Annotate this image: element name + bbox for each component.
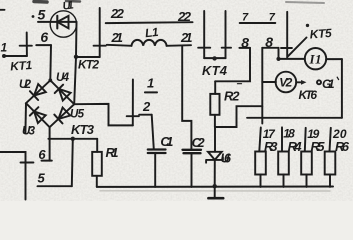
svg-text:7: 7 (242, 12, 249, 24)
svg-text:U1: U1 (62, 0, 75, 13)
diode U5 (54, 108, 70, 124)
junction U1/KT2 (74, 55, 78, 59)
ammeter I1 (279, 48, 342, 69)
svg-text:21: 21 (180, 30, 193, 45)
svg-text:KT1: KT1 (10, 58, 33, 74)
wire R2 top to 8 left (215, 48, 250, 81)
contact KT5 (281, 12, 309, 58)
terminal 8 left line (239, 47, 250, 49)
voltmeter V2 (276, 72, 297, 93)
inductor L1 line 22 (106, 21, 193, 24)
wire 2 to C1 (152, 115, 154, 150)
capacitor C2 (183, 150, 202, 187)
resistor R1 (92, 139, 102, 187)
resistor R4 (278, 127, 289, 186)
contact node 1 mid (127, 80, 139, 126)
junction bridge top (48, 78, 52, 82)
wire 5 riser (72, 139, 73, 186)
svg-text:R6: R6 (335, 139, 350, 154)
svg-text:U2: U2 (19, 79, 32, 91)
svg-text:KT2: KT2 (78, 58, 99, 72)
svg-text:U6: U6 (221, 152, 233, 166)
svg-text:21: 21 (111, 30, 124, 45)
svg-text:C1: C1 (160, 134, 173, 149)
svg-text:R2: R2 (224, 89, 240, 104)
connector KT6 arrow (296, 77, 338, 85)
svg-text:R4: R4 (288, 139, 303, 154)
terminal 7 line (240, 22, 276, 24)
wire bridge right vertex up (74, 57, 76, 104)
svg-text:KT6: KT6 (299, 88, 318, 102)
svg-text:U4: U4 (56, 72, 70, 84)
svg-text:5: 5 (38, 171, 46, 186)
wire R2 bottom jog to riser (215, 106, 262, 127)
junction dot (276, 57, 280, 61)
resistor R3 (255, 128, 266, 187)
svg-text:KT3: KT3 (71, 122, 95, 137)
ground (208, 186, 223, 198)
riser 8 right down (261, 48, 263, 124)
svg-text:7: 7 (269, 12, 276, 24)
top-right edge smudge (286, 2, 324, 3)
bus shadow (100, 190, 330, 192)
terminal 2 bar (139, 114, 152, 116)
svg-text:6: 6 (38, 147, 46, 162)
wire U1 down (75, 22, 78, 57)
svg-text:U3: U3 (22, 126, 36, 138)
label 5 top (32, 15, 35, 18)
wire V2 branch (262, 81, 276, 83)
svg-text:KT4: KT4 (202, 63, 228, 78)
bottom bus (97, 186, 333, 188)
contact KT4 (198, 11, 231, 61)
svg-text:2: 2 (142, 99, 151, 114)
contact KT1 (20, 33, 32, 57)
node 5 bottom terminal line (38, 185, 72, 187)
svg-text:22: 22 (177, 9, 192, 24)
svg-text:U5: U5 (70, 109, 85, 121)
bridge diamond (26, 80, 74, 127)
svg-text:1: 1 (1, 41, 8, 55)
top-left edge smudge (34, 0, 47, 4)
resistor R2 (210, 81, 219, 127)
wire KT2 bottom (76, 56, 100, 58)
svg-text:L1: L1 (144, 25, 159, 40)
svg-text:6: 6 (40, 29, 48, 45)
svg-text:I1: I1 (309, 52, 322, 67)
diode U3 (30, 107, 46, 123)
left edge tick top (0, 9, 5, 11)
wire 21 to C2 (182, 46, 191, 150)
svg-text:1: 1 (147, 75, 154, 90)
svg-text:R1: R1 (106, 145, 119, 160)
resistor R5 (301, 128, 312, 187)
svg-text:R5: R5 (311, 139, 326, 154)
wire to bridge top (49, 45, 52, 80)
node 6 top terminal line (36, 44, 51, 46)
node 6 bottom terminal line (42, 160, 52, 162)
left edge wire (0, 152, 33, 200)
node 5 top wire (38, 21, 77, 23)
svg-text:8: 8 (241, 35, 249, 51)
svg-text:C2: C2 (192, 135, 206, 150)
svg-text:KT5: KT5 (309, 26, 332, 42)
bridge left vertex stub (24, 103, 27, 133)
tick under wire (238, 83, 242, 85)
contact KT2 (94, 8, 106, 57)
svg-text:R3: R3 (264, 139, 278, 154)
wire KT3 (48, 138, 97, 140)
diode U1 (50, 11, 76, 37)
wire bridge bottom down (49, 127, 51, 160)
terminal 1 bar (145, 91, 157, 93)
diode U2 (30, 84, 46, 100)
capacitor C1 (148, 150, 166, 187)
wire bridge right to contact (74, 104, 133, 126)
diode U4 (55, 85, 71, 101)
node 1 (left wire) (2, 54, 27, 58)
svg-text:V2: V2 (279, 76, 292, 90)
wire ammeter contact line (247, 59, 342, 118)
junction KT3 (71, 137, 75, 141)
svg-text:5: 5 (38, 7, 46, 23)
svg-text:G1: G1 (322, 77, 335, 91)
wire 8 right leg down (278, 48, 280, 59)
terminal 8 right line (262, 47, 278, 49)
zener U6 (206, 127, 223, 188)
inductor L1 line 21 with humps (107, 40, 191, 46)
resistor R6 (325, 128, 336, 187)
svg-text:22: 22 (110, 6, 125, 21)
svg-text:8: 8 (265, 34, 273, 50)
